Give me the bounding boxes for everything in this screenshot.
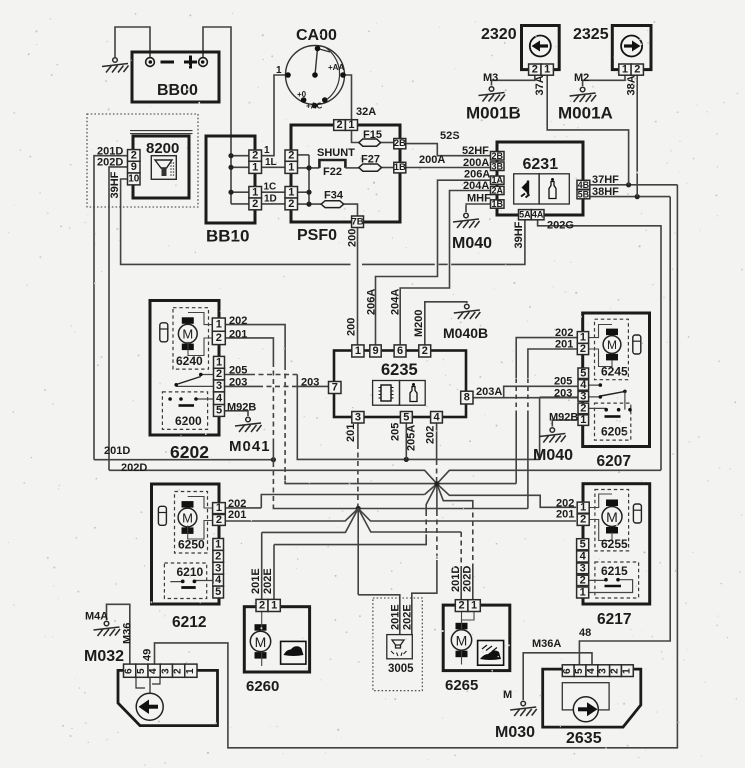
motor 6260 pump — [250, 624, 270, 658]
svg-text:2B: 2B — [394, 138, 406, 149]
window motor unit 6207 — [583, 313, 650, 447]
wire BB10 stub pin2 — [231, 155, 249, 157]
pin 2 of 6212 — [213, 515, 226, 526]
svg-text:6240: 6240 — [176, 354, 203, 368]
wire battery plus to BB10 rail — [203, 27, 231, 204]
svg-text:2: 2 — [216, 514, 222, 526]
double line above 8200 — [130, 131, 193, 134]
svg-text:202: 202 — [556, 497, 574, 509]
svg-text:1C: 1C — [264, 182, 277, 193]
pin 3 lower of 6217 — [577, 563, 589, 574]
svg-text:SHUNT: SHUNT — [317, 147, 355, 159]
wire net 201 to 6207 pin2 lower — [527, 415, 529, 509]
wire net 49/37HF long route — [155, 185, 678, 748]
svg-text:203: 203 — [301, 377, 319, 389]
svg-text:205: 205 — [390, 423, 402, 441]
pin 2 of 6235 — [419, 345, 431, 357]
svg-text:1: 1 — [580, 502, 586, 514]
wire net 202D/202G horizontal — [109, 470, 661, 484]
pin 6 of 2635 — [562, 665, 574, 677]
wire net 1C — [262, 191, 286, 193]
wire net M92B 6202 — [214, 411, 249, 416]
chip glyph — [381, 385, 391, 401]
svg-text:202G: 202G — [547, 220, 574, 232]
svg-text:39HF: 39HF — [109, 171, 121, 198]
svg-text:2: 2 — [252, 150, 258, 162]
svg-text:5: 5 — [574, 668, 585, 674]
wire BB10 stub pin1 — [231, 166, 249, 168]
svg-text:4: 4 — [216, 392, 223, 404]
pin 2 of 6202 — [212, 331, 225, 344]
wire net 38HF — [590, 196, 670, 198]
internal wiring 6255 — [589, 494, 612, 541]
svg-text:3: 3 — [580, 390, 586, 402]
fuse box PSF0 — [291, 125, 400, 222]
svg-text:3: 3 — [216, 380, 222, 392]
pin 1 of M032 — [185, 664, 197, 677]
svg-text:202: 202 — [229, 315, 247, 327]
icon cells 6231 — [514, 174, 539, 204]
door glyph 6207 — [633, 335, 641, 354]
window motor unit 6217 — [583, 484, 650, 604]
wire F27 to 1B — [382, 167, 394, 169]
svg-text:2: 2 — [459, 600, 465, 612]
pin 2A of 6231 — [491, 186, 505, 194]
switch contacts 6210 — [170, 581, 213, 582]
svg-text:48: 48 — [579, 627, 591, 639]
dashed boundary switch 6200 — [162, 392, 207, 430]
door glyph 6217 — [633, 504, 641, 523]
wire net 201D left — [94, 156, 128, 460]
svg-text:1: 1 — [185, 668, 196, 674]
svg-text:1: 1 — [288, 161, 294, 173]
pin 2b of PSF0 left — [285, 198, 298, 210]
svg-text:M040: M040 — [452, 235, 492, 252]
pin 2 of M032 — [173, 664, 185, 677]
svg-text:1B: 1B — [491, 199, 503, 209]
lamp glyph 3005 — [392, 640, 404, 645]
wire net 200 PSF0 7B to 6235 pin1 — [357, 228, 359, 345]
svg-text:205: 205 — [554, 375, 572, 387]
svg-text:6207: 6207 — [597, 453, 631, 470]
svg-text:1: 1 — [276, 65, 282, 76]
motor 6265 pump — [451, 623, 471, 657]
svg-text:3: 3 — [215, 562, 221, 574]
pin 4 of 2635 — [586, 665, 598, 677]
svg-text:5: 5 — [136, 668, 147, 674]
pin 2 lower of 6212 — [213, 550, 224, 562]
wire net 202 from 6202 — [225, 325, 285, 365]
svg-text:1B: 1B — [394, 162, 406, 173]
svg-text:4: 4 — [586, 668, 597, 674]
ground M040 right — [539, 428, 566, 443]
car icon 6260 — [281, 641, 306, 664]
wire PSF0 pin1b stub — [298, 191, 310, 193]
svg-text:202D: 202D — [97, 156, 123, 168]
svg-text:1: 1 — [252, 186, 258, 198]
horn icon 8200 — [151, 156, 176, 180]
svg-text:6245: 6245 — [601, 365, 628, 379]
pin 7B of PSF0 — [352, 216, 364, 228]
svg-text:4B: 4B — [578, 180, 590, 190]
dashed boundary motor 6240 — [173, 308, 209, 369]
wire net 39HF middle segment — [362, 263, 435, 265]
shunt F22 — [319, 160, 345, 168]
ground M040B — [454, 304, 481, 319]
pin 2 of BB10 — [249, 150, 262, 161]
svg-text:2: 2 — [532, 64, 538, 76]
svg-text:2: 2 — [252, 198, 258, 210]
svg-text:2: 2 — [580, 514, 586, 526]
svg-text:2: 2 — [216, 368, 222, 380]
wire net 201E to 3005 — [358, 595, 400, 635]
svg-text:1: 1 — [580, 414, 586, 426]
pin 2 of 6260 — [256, 599, 268, 611]
svg-text:200: 200 — [347, 229, 359, 247]
svg-text:1: 1 — [544, 64, 550, 76]
svg-text:1: 1 — [252, 161, 258, 173]
svg-text:200A: 200A — [463, 157, 489, 169]
svg-text:5B: 5B — [578, 189, 590, 199]
svg-text:M: M — [182, 327, 193, 342]
wire net 205A from 6235 pin5 — [405, 423, 407, 459]
junction BB10 rail/pin1b — [228, 190, 233, 195]
svg-text:6215: 6215 — [601, 564, 628, 578]
battery terminals — [146, 58, 208, 67]
svg-text:1: 1 — [580, 332, 586, 344]
car icon 6265 — [478, 641, 504, 666]
svg-text:201E: 201E — [390, 604, 402, 630]
motor 6250 — [178, 501, 197, 534]
svg-text:2: 2 — [634, 64, 640, 76]
svg-text:202: 202 — [228, 498, 246, 510]
wire net 37A — [547, 75, 628, 185]
svg-text:5: 5 — [580, 538, 586, 550]
svg-text:2: 2 — [215, 550, 221, 562]
svg-text:M36: M36 — [122, 623, 134, 644]
pin 2B of PSF0 — [394, 139, 406, 149]
svg-text:7: 7 — [332, 382, 338, 394]
junction PSF0 rail 2 — [306, 190, 311, 195]
svg-text:F34: F34 — [324, 190, 344, 202]
pin 1b of PSF0 left — [285, 187, 298, 199]
svg-text:1: 1 — [216, 502, 222, 514]
pin 5B of 6231 — [577, 190, 590, 199]
wire net 201 hubB to 6212 pin2 — [225, 509, 358, 522]
svg-text:1L: 1L — [265, 157, 277, 168]
svg-text:202D: 202D — [121, 462, 147, 474]
wire net 202 to 6207 pin1 lower — [515, 415, 517, 484]
pin 1 of 2320 — [541, 64, 553, 75]
svg-text:2: 2 — [580, 574, 586, 586]
wire net 1D — [262, 203, 286, 205]
junction hub B net201 — [356, 506, 361, 511]
svg-text:M041: M041 — [229, 438, 271, 455]
horn control unit 8200 — [133, 136, 189, 198]
pin 2 of 2635 — [610, 665, 622, 677]
pin 2 of PSF0 top — [334, 120, 346, 131]
pin 1 of 6212 — [213, 503, 226, 514]
svg-text:202E: 202E — [401, 604, 413, 630]
svg-text:1: 1 — [621, 668, 632, 674]
pin 5 of M032 — [136, 664, 148, 677]
wire PSF0 left rail — [308, 155, 310, 204]
lamp 3005 icon box — [387, 635, 413, 659]
internal wiring 6260 — [261, 612, 263, 667]
svg-text:9: 9 — [131, 161, 137, 173]
battery BB00 — [132, 52, 219, 102]
ground M041 — [235, 417, 262, 432]
pin 1B of PSF0 — [394, 162, 406, 173]
svg-text:M2: M2 — [574, 72, 589, 84]
dashed boundary switch 6205 — [595, 403, 631, 440]
svg-text:5A: 5A — [519, 210, 531, 220]
wire net 202 horizontal through hubs — [285, 481, 516, 484]
svg-text:203A: 203A — [476, 386, 502, 398]
svg-text:F22: F22 — [323, 166, 342, 178]
svg-text:204A: 204A — [463, 180, 489, 192]
pin 2 of 8200 — [128, 150, 141, 162]
svg-text:4: 4 — [215, 574, 222, 586]
pin 1 of PSF0 left — [285, 161, 298, 173]
wire net 39HF crossing segment — [439, 263, 448, 265]
svg-text:201: 201 — [345, 424, 357, 442]
svg-text:M030: M030 — [495, 724, 535, 741]
pin 4 lower of 6202 — [214, 392, 225, 405]
svg-text:MHF: MHF — [467, 192, 491, 204]
pin 1A of 6231 — [491, 176, 505, 184]
wire net M36A — [523, 653, 592, 700]
svg-text:F15: F15 — [363, 129, 382, 141]
svg-text:200A: 200A — [419, 154, 445, 166]
wire 2325 pin1 to ground M2 — [583, 75, 625, 86]
svg-text:202D: 202D — [462, 566, 474, 592]
switch contacts 6200 — [176, 375, 213, 387]
pin 1 of 6265 — [468, 600, 480, 612]
svg-text:1D: 1D — [264, 194, 277, 205]
fuse F15 — [359, 139, 381, 146]
svg-text:205A: 205A — [406, 425, 418, 451]
junction PSF0 rail — [306, 165, 311, 170]
window motor unit 6212 — [152, 484, 220, 604]
pin 1 lower of 6217 — [577, 587, 589, 598]
speaker mute glyph — [522, 181, 529, 194]
junction 38A/38HF — [635, 194, 640, 199]
junction PSF0 rail 3 — [306, 202, 311, 207]
svg-text:CA00: CA00 — [296, 27, 337, 44]
wire 6260 pin2 drop — [261, 532, 263, 599]
wire PSF0 pin2 stub — [298, 154, 310, 156]
switch contacts 6205 — [589, 385, 607, 408]
svg-text:M200: M200 — [413, 309, 425, 337]
arrow motor glyph M032 — [149, 677, 151, 693]
svg-text:2B: 2B — [491, 151, 503, 161]
pin 2 lower of 6202 — [214, 368, 225, 380]
indicator icon 2320 — [530, 36, 551, 57]
wire net 39HF left segment — [121, 179, 351, 264]
dashed boundary switch 6215 — [595, 562, 639, 598]
pin 1 of 2325 — [619, 64, 631, 75]
icon cells 6235 — [373, 381, 400, 406]
svg-text:8: 8 — [464, 392, 470, 404]
svg-text:M3: M3 — [483, 72, 498, 84]
junction 205/205A — [404, 457, 409, 462]
wire net M36 M032 pin6 to M4A — [107, 604, 130, 664]
ground M3 — [479, 87, 506, 102]
svg-text:206A: 206A — [464, 168, 490, 180]
svg-text:M: M — [182, 511, 193, 526]
svg-text:M92B: M92B — [549, 411, 578, 423]
wire net 202 hubA down — [436, 484, 438, 511]
wire net 201 from 6202 — [225, 338, 273, 362]
svg-text:M4A: M4A — [85, 611, 108, 623]
svg-text:3: 3 — [160, 668, 171, 674]
pin 1 of BB10 — [249, 161, 262, 173]
svg-text:2: 2 — [173, 668, 184, 674]
wire net 202G — [538, 220, 661, 470]
pin 1 of PSF0 top — [345, 120, 357, 131]
svg-text:6265: 6265 — [445, 677, 478, 694]
wire net 204A — [400, 191, 490, 345]
pin 7 of 6235 — [329, 382, 342, 394]
wire net 206A — [376, 180, 491, 345]
wire net 52S/52HF — [406, 144, 491, 156]
wire top conn to F15 — [352, 130, 359, 142]
motor assembly 2635 — [543, 669, 641, 727]
junction BB10 rail/pin1 — [228, 165, 233, 170]
svg-text:1A: 1A — [491, 175, 503, 185]
svg-text:204A: 204A — [390, 289, 402, 315]
svg-text:M36A: M36A — [532, 638, 561, 650]
wire net 203 a — [225, 385, 259, 387]
wire net MHF to ground — [466, 204, 491, 212]
pump unit 6260 — [244, 607, 309, 672]
wire net 201D to 6265 pin2 — [460, 532, 462, 568]
pin 3 lower of 6212 — [213, 562, 224, 574]
wire net M200 — [425, 302, 467, 345]
pin 4 lower of 6217 — [577, 551, 589, 562]
svg-text:5: 5 — [403, 411, 409, 423]
svg-text:201: 201 — [556, 509, 574, 521]
svg-text:2A: 2A — [491, 185, 503, 195]
wire net 202 from 6235 pin4 — [436, 423, 438, 460]
svg-text:+AA: +AA — [328, 63, 344, 72]
svg-text:M92B: M92B — [227, 402, 256, 414]
svg-text:2320: 2320 — [481, 26, 517, 43]
svg-text:BB00: BB00 — [157, 82, 198, 99]
wire net 32A — [343, 75, 352, 120]
svg-text:2: 2 — [580, 343, 586, 355]
svg-text:37HF: 37HF — [592, 174, 619, 186]
wire net 201E hubB to 6260 — [262, 509, 359, 533]
pin 3 lower of 6202 — [214, 380, 225, 392]
pin 5 lower of 6207 — [578, 368, 589, 379]
svg-text:7B: 7B — [351, 216, 363, 227]
pin 4B of 6231 — [577, 180, 590, 189]
svg-text:32A: 32A — [356, 106, 376, 118]
svg-text:2: 2 — [131, 149, 137, 161]
wire net 202D hubA to 6265 — [437, 484, 473, 504]
svg-text:39HF: 39HF — [513, 221, 525, 248]
svg-text:201E: 201E — [250, 568, 262, 594]
svg-text:201D: 201D — [450, 566, 462, 592]
motor assembly M032 — [118, 670, 218, 725]
svg-text:1: 1 — [622, 64, 628, 76]
pin 3 lower of 6207 — [578, 391, 589, 401]
wire net 48/38HF route — [579, 197, 670, 665]
wire shunt to F27 — [345, 167, 358, 169]
svg-text:1: 1 — [264, 145, 270, 156]
pin 1 of 6217 — [577, 502, 589, 513]
wire net 1L — [262, 166, 286, 168]
svg-text:5: 5 — [215, 586, 221, 598]
svg-text:4: 4 — [580, 550, 587, 562]
pin 1 lower of 6202 — [214, 356, 225, 368]
ignition switch CA00 — [286, 46, 345, 105]
svg-text:203: 203 — [229, 377, 247, 389]
svg-text:202: 202 — [555, 327, 573, 339]
svg-text:6250: 6250 — [178, 538, 205, 552]
svg-text:205: 205 — [229, 364, 247, 376]
pin 2 lower of 6217 — [577, 575, 589, 585]
pin 5 lower of 6202 — [214, 405, 225, 417]
wire net 201 hubB to 6217 pin2 — [358, 509, 576, 522]
wire net 202D left — [109, 167, 128, 470]
pin 2 of 2320 — [529, 64, 541, 75]
pin 1 lower of 6207 — [578, 415, 589, 426]
window glyph 6202 — [160, 323, 168, 342]
pin 4 lower of 6212 — [213, 574, 224, 586]
wire net 203A — [473, 397, 578, 399]
svg-text:201D: 201D — [104, 445, 130, 457]
pin 1 of 2635 — [621, 665, 633, 677]
motor 6245 — [603, 329, 621, 361]
switch contacts 6215 — [589, 580, 633, 593]
svg-text:6235: 6235 — [381, 361, 418, 379]
wire net 205 riser to 6207 — [539, 397, 541, 459]
dotted boundary 8200 — [87, 114, 198, 207]
svg-text:5: 5 — [216, 405, 222, 417]
svg-text:1: 1 — [215, 538, 221, 550]
svg-text:6217: 6217 — [597, 611, 631, 628]
svg-text:6: 6 — [562, 668, 573, 674]
ground M040 near 6231 — [453, 213, 480, 228]
pin 2b of BB10 — [249, 198, 262, 210]
control unit 6235 — [334, 351, 466, 418]
svg-text:M: M — [606, 509, 618, 525]
pin 2 of 6207 — [577, 343, 588, 354]
wire F15 to 2B — [381, 142, 394, 144]
pin 2 of 6265 — [455, 600, 468, 612]
pin 3 of 6235 — [352, 412, 364, 424]
wire net 205 branch to 6207 pin4 — [504, 386, 578, 397]
svg-text:6: 6 — [124, 668, 135, 674]
window motor unit 6202 — [150, 301, 219, 436]
wire net 202E to 6260 — [274, 534, 426, 544]
svg-text:38HF: 38HF — [592, 186, 619, 198]
svg-text:PSF0: PSF0 — [297, 227, 337, 244]
internal wiring 6245 — [589, 325, 612, 367]
svg-text:6205: 6205 — [601, 425, 628, 439]
svg-text:M001B: M001B — [466, 104, 521, 123]
svg-text:4: 4 — [148, 668, 159, 674]
pin 4 of 6235 — [431, 412, 443, 424]
svg-text:M: M — [503, 689, 512, 701]
svg-text:200: 200 — [346, 318, 358, 336]
svg-text:1: 1 — [216, 319, 222, 331]
bottle glyph 6235 — [412, 383, 415, 386]
wire net 200A — [406, 167, 491, 169]
